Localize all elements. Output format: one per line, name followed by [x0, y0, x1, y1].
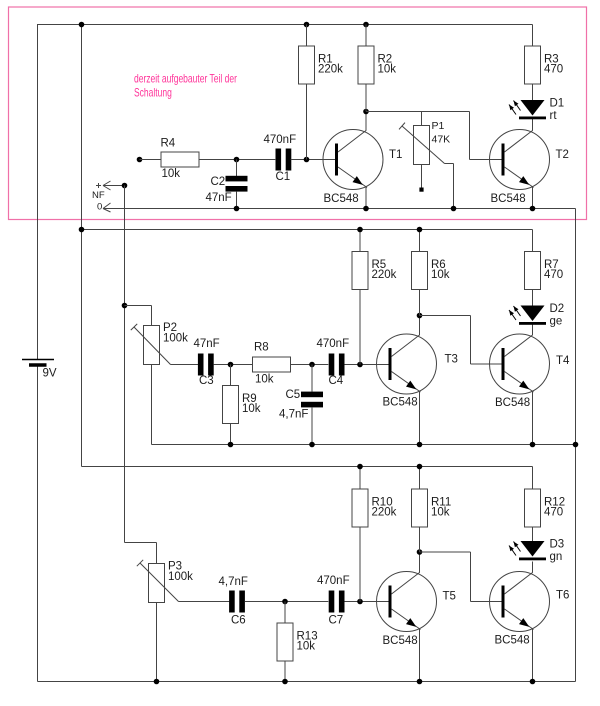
capacitor C4 — [329, 354, 345, 376]
junction ground rail / P1 wiper — [451, 206, 457, 212]
wire collector node to T6 base horizontal — [420, 551, 471, 553]
LED D3 green — [509, 541, 546, 560]
capacitor C2 — [226, 176, 248, 192]
svg-text:10k: 10k — [297, 641, 316, 653]
label BC548 of T4 — [495, 397, 530, 409]
resistor R4 — [161, 152, 199, 167]
svg-text:derzeit aufgebauter Teil der: derzeit aufgebauter Teil der — [134, 73, 237, 86]
wire R2 top — [365, 25, 367, 47]
wire R11 top — [419, 467, 421, 490]
svg-text:0: 0 — [97, 202, 102, 213]
svg-text:C2: C2 — [211, 176, 226, 188]
label R9 value 10k — [242, 393, 261, 415]
NF input 0 arrow — [103, 203, 111, 212]
label D2 colour ge — [550, 303, 565, 328]
svg-text:T2: T2 — [556, 149, 569, 161]
capacitor C7 — [329, 591, 345, 613]
svg-text:100k: 100k — [163, 332, 188, 344]
svg-text:R4: R4 — [161, 138, 176, 150]
wire R9 bottom — [230, 424, 232, 445]
label R13 value 10k — [297, 630, 318, 652]
wire T1 emitter vertical — [365, 187, 367, 209]
label 0 — [97, 202, 102, 213]
label C2 value 47nF — [206, 176, 232, 204]
svg-text:47nF: 47nF — [194, 338, 220, 350]
wire T6 emitter vertical — [532, 629, 534, 682]
label T4 — [556, 355, 570, 367]
label R8 value 10k — [254, 342, 274, 386]
wire R11 bottom — [419, 527, 421, 552]
junction stage3 ground / T6 emitter — [530, 679, 536, 685]
wire R10 top — [359, 467, 361, 490]
svg-text:10k: 10k — [431, 269, 450, 281]
wire NF to P2 horizontal — [125, 305, 152, 307]
label C3 value 47nF — [194, 338, 220, 387]
svg-text:10k: 10k — [378, 64, 397, 76]
node T3 collector / R6 — [417, 313, 423, 319]
wire T1 collector vertical — [365, 112, 367, 131]
wire T3 emitter vertical — [419, 391, 421, 445]
resistor R8 — [253, 357, 291, 372]
node T1 base / R1 — [304, 157, 310, 163]
LED D1 red — [509, 100, 546, 119]
svg-text:470nF: 470nF — [264, 134, 297, 146]
label R4 value 10k — [161, 138, 181, 181]
label R6 value 10k — [431, 259, 450, 281]
junction ground rail / T2 emitter — [530, 206, 536, 212]
resistor R1 — [299, 46, 315, 84]
resistor R6 — [412, 252, 428, 290]
resistor R9 — [223, 386, 239, 424]
wire R2 bottom — [365, 84, 367, 112]
label R12 value 470 — [544, 496, 565, 518]
node T3 base / R5 — [357, 362, 363, 368]
label BC548 of T1 — [324, 193, 359, 205]
label T3 — [445, 354, 458, 366]
label BC548 of T5 — [383, 635, 418, 647]
wire to T4 base vertical — [470, 316, 472, 365]
svg-text:470nF: 470nF — [317, 338, 350, 350]
wire C6 to R13 node — [245, 601, 328, 603]
wire T2 emitter vertical — [532, 187, 534, 209]
label 9V — [43, 368, 57, 380]
label R1 value 220k — [318, 53, 343, 75]
wire T4 collector to D2 — [532, 325, 534, 336]
label BC548 of T3 — [383, 397, 418, 409]
wire collector node to T2 base horizontal — [366, 111, 470, 113]
wire battery rail lower — [37, 365, 39, 682]
svg-text:NF: NF — [92, 190, 105, 201]
junction stage2 ground / T3 emitter — [417, 442, 423, 448]
transistor T5 — [377, 572, 437, 632]
capacitor C3 — [198, 354, 214, 376]
junction stage3 ground / P3 — [154, 679, 160, 685]
svg-text:D3: D3 — [550, 539, 565, 551]
wire R5 top — [359, 230, 361, 252]
wire R12 to D3 — [532, 527, 534, 541]
junction stage2 ground / R9 — [228, 442, 234, 448]
svg-text:4,7nF: 4,7nF — [279, 409, 308, 421]
capacitor C5 — [301, 392, 323, 408]
svg-text:470: 470 — [544, 507, 563, 519]
svg-text:10k: 10k — [431, 507, 450, 519]
label R5 value 220k — [372, 259, 397, 281]
transistor T3 — [377, 334, 437, 394]
resistor R11 — [412, 489, 428, 527]
capacitor C1 — [276, 149, 292, 171]
svg-text:T1: T1 — [389, 149, 402, 161]
wire battery rail upper — [37, 24, 39, 360]
svg-text:P1: P1 — [432, 120, 445, 132]
wire input to R4 — [140, 159, 162, 161]
node R8/C4/C5 — [309, 362, 315, 368]
wire C3 to R8 node — [214, 364, 253, 366]
junction stage3 rail / R11 — [417, 464, 423, 470]
label R11 value 10k — [431, 496, 451, 518]
NF input + arrow — [96, 181, 125, 190]
terminal P1 bottom — [419, 188, 423, 192]
wire C2 bottom — [236, 191, 238, 208]
junction stage2 ground / T4 emitter — [530, 442, 536, 448]
potentiometer P2 — [131, 324, 171, 365]
svg-text:D1: D1 — [550, 98, 565, 110]
svg-text:T4: T4 — [556, 355, 570, 367]
junction stage3 ground / T5 emitter — [417, 679, 423, 685]
wire to T2 base vertical — [469, 112, 471, 160]
capacitor C6 — [229, 591, 245, 613]
label P1 value 47K — [432, 120, 451, 146]
wire to T4 base — [471, 363, 503, 365]
wire R10 bottom — [359, 527, 361, 602]
wire C5 top — [311, 365, 313, 392]
label NF — [92, 190, 105, 201]
svg-text:BC548: BC548 — [495, 397, 530, 409]
label R7 value 470 — [544, 259, 563, 281]
wire V+ distribution vertical x81 — [81, 25, 83, 467]
resistor R3 — [525, 46, 541, 84]
svg-text:47nF: 47nF — [206, 192, 232, 204]
wire stage2 rail to R7 — [532, 230, 534, 252]
wire R13 top — [284, 602, 286, 624]
label BC548 of T6 — [495, 635, 530, 647]
wire R7 to D2 — [532, 290, 534, 306]
svg-text:BC548: BC548 — [491, 193, 526, 205]
svg-text:C6: C6 — [231, 615, 246, 627]
resistor R13 — [277, 623, 293, 661]
junction ground rail / T1 emitter — [363, 206, 369, 212]
label C4 value 470nF — [317, 338, 350, 387]
label C6 value 4,7nF — [219, 576, 248, 627]
wire P1 wiper to ground vertical — [453, 164, 455, 209]
svg-text:100k: 100k — [168, 571, 193, 583]
svg-text:T5: T5 — [443, 591, 456, 603]
svg-text:BC548: BC548 — [324, 193, 359, 205]
potentiometer P3 — [137, 560, 179, 603]
svg-text:470nF: 470nF — [317, 575, 350, 587]
wire C1 to base node — [291, 159, 336, 161]
junction stage3 ground / R13 — [282, 679, 288, 685]
svg-text:220k: 220k — [318, 64, 343, 76]
svg-text:470: 470 — [544, 64, 563, 76]
svg-text:BC548: BC548 — [383, 397, 418, 409]
resistor R2 — [358, 46, 374, 84]
wire R6 top — [419, 230, 421, 252]
label C7 value 470nF — [317, 575, 350, 627]
junction stage2 ground / C5 — [309, 442, 315, 448]
wire stage2 ground rail — [152, 444, 576, 446]
junction NF line / P2 branch — [122, 303, 128, 309]
resistor R12 — [525, 489, 541, 527]
wire P3 top — [156, 543, 158, 564]
label T5 — [443, 591, 456, 603]
svg-text:Schaltung: Schaltung — [134, 87, 172, 100]
junction stage2 rail / R5 — [357, 227, 363, 233]
svg-text:10k: 10k — [242, 403, 261, 415]
resistor R7 — [525, 252, 541, 290]
label P3 value 100k — [168, 561, 193, 583]
annotation box: currently built part of circuit — [9, 7, 587, 220]
wire T5 collector vertical — [419, 552, 421, 573]
svg-text:C4: C4 — [329, 375, 344, 387]
wire P2 top — [151, 306, 153, 326]
wire R6 bottom — [419, 290, 421, 316]
label T2 — [556, 149, 569, 161]
svg-text:220k: 220k — [372, 269, 397, 281]
label T6 — [556, 590, 569, 602]
potentiometer P1 — [399, 123, 444, 165]
junction stage3 rail / R10 — [357, 464, 363, 470]
wire to T2 base — [470, 159, 503, 161]
label R2 value 10k — [378, 53, 397, 75]
wire C5 bottom — [311, 407, 313, 445]
node R4/C1/C2 — [234, 157, 240, 163]
wire top rail to R3 — [532, 25, 534, 47]
wire T5 emitter vertical — [419, 629, 421, 682]
svg-text:T6: T6 — [556, 590, 569, 602]
svg-text:C7: C7 — [329, 615, 344, 627]
svg-text:rt: rt — [550, 110, 558, 122]
svg-text:4,7nF: 4,7nF — [219, 576, 248, 588]
svg-text:10k: 10k — [255, 374, 274, 386]
svg-text:10k: 10k — [162, 168, 181, 180]
transistor T1 — [323, 130, 383, 190]
wire right return vertical — [575, 209, 577, 682]
node C6/R13/C7 — [282, 599, 288, 605]
svg-text:T3: T3 — [445, 354, 458, 366]
wire C4 to base node — [344, 364, 389, 366]
wire R1 bottom — [306, 84, 308, 160]
label R3 value 470 — [544, 53, 563, 75]
wire stage2 top rail — [82, 229, 533, 231]
label D3 colour gn — [550, 539, 565, 564]
node T5 collector / R11 — [417, 549, 423, 555]
label R10 value 220k — [372, 496, 397, 518]
wire T2 collector to D1 — [532, 119, 534, 131]
svg-text:C3: C3 — [199, 375, 214, 387]
label C1 value 470nF — [264, 134, 297, 183]
battery BT1 9V — [22, 360, 54, 366]
svg-text:C1: C1 — [276, 171, 291, 183]
wire to T6 base vertical — [470, 552, 472, 602]
wire R9 top — [230, 365, 232, 386]
wire P3 wiper to C6 — [179, 601, 230, 603]
svg-text:D2: D2 — [550, 303, 565, 315]
svg-text:470: 470 — [544, 269, 563, 281]
svg-text:220k: 220k — [372, 507, 397, 519]
svg-text:BC548: BC548 — [383, 635, 418, 647]
node NF+ — [122, 183, 128, 189]
junction stage2 rail / R6 — [417, 227, 423, 233]
wire T4 emitter vertical — [532, 391, 534, 445]
wire V+ top rail — [38, 24, 533, 26]
junction top rail / R1 — [304, 22, 310, 28]
wire R5 bottom — [359, 290, 361, 365]
terminal stage1 input — [137, 157, 143, 163]
svg-text:47K: 47K — [432, 134, 451, 146]
wire P2 bottom — [151, 365, 153, 445]
resistor R10 — [352, 489, 368, 527]
junction stage2 ground / right return — [573, 442, 579, 448]
node T5 base / R10 — [357, 599, 363, 605]
wire stage1 ground rail — [103, 208, 576, 210]
wire to T6 base — [471, 601, 503, 603]
wire stage3 top rail — [82, 466, 533, 468]
wire stage3 ground rail — [38, 681, 576, 683]
wire C2 top — [236, 160, 238, 177]
svg-text:C5: C5 — [286, 389, 301, 401]
wire R13 bottom — [284, 661, 286, 682]
wire R1 top — [306, 25, 308, 47]
transistor T6 — [490, 572, 550, 632]
svg-text:ge: ge — [550, 316, 563, 328]
LED D2 yellow — [509, 306, 546, 325]
transistor T2 — [490, 130, 550, 190]
wire P1 wiper to ground horizontal — [445, 163, 454, 165]
junction top rail / x81 — [79, 22, 85, 28]
wire P1 top — [421, 112, 423, 126]
node T1 collector / R2 — [363, 109, 369, 115]
wire P3 bottom — [156, 603, 158, 682]
wire NF+ vertical x124 — [124, 186, 126, 543]
svg-text:BC548: BC548 — [495, 635, 530, 647]
label C5 value 4,7nF — [279, 389, 308, 421]
label P2 value 100k — [163, 322, 188, 344]
svg-text:9V: 9V — [43, 368, 57, 380]
label T1 — [389, 149, 402, 161]
label D1 colour rt — [550, 98, 565, 123]
wire R4 to C2 node — [199, 159, 275, 161]
wire P1 bottom stub — [421, 165, 423, 189]
wire P2 wiper to C3 — [171, 364, 199, 366]
wire R8 to C4 node — [291, 364, 329, 366]
node C3/R8/R9 — [228, 362, 234, 368]
wire C7 to base node — [344, 601, 389, 603]
wire stage3 rail to R12 — [532, 467, 534, 490]
label BC548 of T2 — [491, 193, 526, 205]
transistor T4 — [490, 334, 550, 394]
annotation text — [134, 73, 237, 100]
wire T3 collector vertical — [419, 316, 421, 336]
svg-text:gn: gn — [550, 551, 563, 563]
wire collector node to T4 base horizontal — [420, 315, 471, 317]
junction ground rail / C2 — [234, 206, 240, 212]
junction top rail / R2 — [363, 22, 369, 28]
junction x81 / stage2 rail — [79, 227, 85, 233]
wire T6 collector to D3 — [532, 562, 534, 573]
wire R3 to D1 — [532, 84, 534, 100]
svg-text:R8: R8 — [254, 342, 269, 354]
wire NF to P3 horizontal — [125, 542, 157, 544]
resistor R5 — [352, 252, 368, 290]
